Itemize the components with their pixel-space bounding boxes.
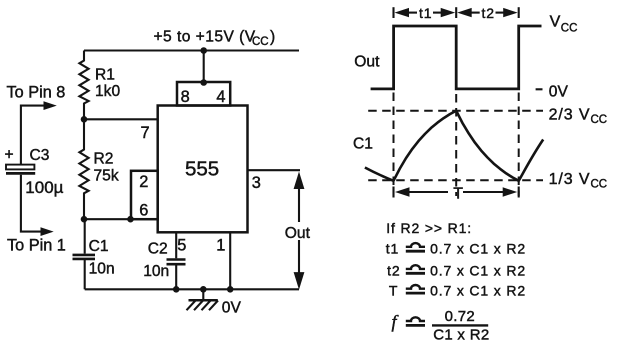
- node: C2 to rail: [173, 286, 180, 293]
- ground stub: [202, 289, 204, 300]
- svg-text:1: 1: [216, 236, 225, 254]
- supply wire +5 to +15V: [84, 49, 299, 51]
- svg-text:C1: C1: [89, 238, 109, 255]
- formula t1: [386, 240, 526, 256]
- svg-text:7: 7: [141, 124, 150, 142]
- pin box 2/6: [131, 171, 158, 219]
- dashed vertical t2 end: [518, 93, 520, 197]
- svg-text:+5 to +15V (V: +5 to +15V (V: [154, 29, 256, 46]
- svg-text:0.7 x C1 x R2: 0.7 x C1 x R2: [430, 263, 526, 279]
- dashed vertical t1/t2 boundary: [455, 94, 457, 196]
- svg-text:C1: C1: [353, 136, 373, 153]
- waveform: t1/t2 measure bars: [394, 7, 519, 18]
- svg-text:CC: CC: [561, 22, 578, 34]
- ground chassis symbol: [187, 300, 219, 310]
- wire: bottom rail 0V: [85, 288, 299, 290]
- svg-text:CC: CC: [591, 178, 608, 190]
- node: ground junction: [200, 286, 207, 293]
- resistor R1: [79, 51, 120, 120]
- wire: R2 bottom to pins 2/6: [84, 218, 131, 220]
- svg-text:+: +: [5, 147, 14, 164]
- svg-text:0V: 0V: [222, 300, 242, 317]
- svg-text:2/3 V: 2/3 V: [549, 107, 591, 124]
- pin box 8/4: [177, 82, 230, 106]
- capacitor C2 on pin 5: [143, 232, 185, 289]
- resistor R2: [79, 119, 118, 219]
- supply label +5 to +15V (Vcc): [154, 29, 276, 49]
- svg-text:CC: CC: [591, 114, 608, 126]
- svg-text:2: 2: [139, 173, 148, 191]
- formula T: [389, 282, 526, 298]
- node: pins 8/4 box top: [200, 79, 207, 86]
- arrow to pin 8: [21, 101, 57, 164]
- svg-text:100µ: 100µ: [25, 178, 63, 197]
- wire: supply drop to pins 8/4 box: [203, 51, 205, 83]
- svg-text:0.7 x C1 x R2: 0.7 x C1 x R2: [430, 240, 526, 256]
- svg-text:Out: Out: [354, 53, 380, 70]
- svg-text:75k: 75k: [94, 167, 119, 184]
- arrow to pin 1: [21, 175, 54, 236]
- svg-text:C3: C3: [30, 147, 50, 164]
- wire: pin 3 output: [248, 169, 301, 171]
- svg-text:3: 3: [252, 174, 261, 192]
- svg-text:R1: R1: [95, 67, 115, 84]
- Vcc level label: [550, 13, 578, 34]
- IC U1 555 timer body: [158, 106, 248, 233]
- svg-text:1/3 V: 1/3 V: [549, 171, 591, 188]
- capacitor C1: [73, 219, 115, 289]
- node: supply junction: [200, 47, 207, 54]
- svg-text:t2: t2: [482, 5, 495, 21]
- svg-text:f: f: [392, 312, 400, 332]
- formula f fraction: [392, 308, 490, 344]
- svg-text:10n: 10n: [143, 263, 169, 280]
- svg-text:t2: t2: [387, 263, 400, 279]
- node: pin1 to rail: [227, 286, 234, 293]
- svg-text:0.72: 0.72: [445, 308, 475, 325]
- dashed 2/3 Vcc level: [368, 110, 543, 112]
- svg-text:): ): [270, 29, 275, 46]
- svg-text:T: T: [389, 282, 398, 298]
- node: R2/C1 junction: [81, 216, 88, 223]
- Out square wave: [371, 26, 542, 89]
- Out double arrow: [283, 172, 316, 290]
- svg-text:C1 x R2: C1 x R2: [433, 327, 489, 344]
- svg-text:R2: R2: [94, 150, 114, 167]
- svg-text:Out: Out: [285, 225, 311, 242]
- svg-text:555: 555: [185, 158, 219, 181]
- node: pins 2/6 box corner: [127, 216, 134, 223]
- svg-text:8: 8: [181, 88, 190, 106]
- t1 arrows: [395, 5, 456, 21]
- T measure arrow: [394, 185, 519, 202]
- svg-text:T: T: [453, 185, 463, 202]
- 1/3 Vcc label: [549, 171, 608, 190]
- svg-text:t1: t1: [419, 5, 432, 21]
- svg-text:t1: t1: [386, 240, 399, 256]
- C1 charge/discharge curve: [365, 111, 543, 181]
- svg-text:V: V: [550, 13, 561, 30]
- svg-text:0.7 x C1 x R2: 0.7 x C1 x R2: [430, 282, 526, 298]
- 2/3 Vcc label: [549, 107, 608, 126]
- wire: pin 1 down: [229, 232, 231, 289]
- svg-text:C2: C2: [148, 240, 168, 257]
- svg-text:CC: CC: [252, 36, 269, 48]
- svg-text:5: 5: [177, 236, 186, 254]
- capacitor C3 electrolytic: [5, 147, 64, 198]
- svg-text:1k0: 1k0: [95, 83, 120, 100]
- svg-text:6: 6: [139, 201, 148, 219]
- svg-text:To Pin 1: To Pin 1: [7, 236, 66, 254]
- 0V dash: [536, 88, 543, 90]
- node: R1/R2 junction: [81, 116, 88, 123]
- svg-text:4: 4: [216, 88, 225, 106]
- svg-text:10n: 10n: [89, 261, 115, 278]
- dashed 1/3 Vcc level: [368, 179, 543, 181]
- formula t2: [387, 263, 526, 279]
- wire: pin 7 to R1/R2 junction: [84, 118, 158, 120]
- svg-text:If R2 >> R1:: If R2 >> R1:: [386, 220, 472, 236]
- t2 arrows: [457, 5, 518, 21]
- svg-text:To Pin 8: To Pin 8: [7, 84, 66, 102]
- dashed vertical t1 start: [393, 93, 395, 197]
- svg-text:0V: 0V: [549, 84, 569, 101]
